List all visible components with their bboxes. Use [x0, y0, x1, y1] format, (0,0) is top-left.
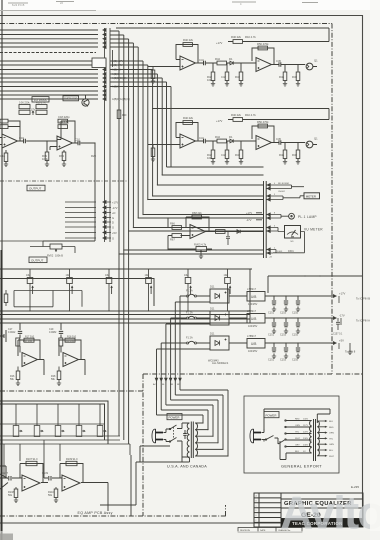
svg-text:OUTPUT: OUTPUT: [29, 187, 42, 191]
fuse F1: [187, 294, 197, 297]
left edge darkening: [0, 250, 2, 540]
wire labels: [278, 183, 289, 193]
svg-text:D1: D1: [229, 57, 233, 61]
second channel row: [148, 113, 329, 164]
svg-text:R107 91.0: R107 91.0: [26, 458, 38, 461]
svg-text:C10: C10: [75, 138, 80, 142]
meter pair loop: [273, 185, 304, 189]
svg-text:C42: C42: [221, 75, 226, 79]
svg-text:8-22 P.C.B: 8-22 P.C.B: [12, 3, 25, 7]
resistor R49: [296, 72, 300, 81]
op-amp IC1a: [180, 56, 196, 70]
svg-text:R66: R66: [170, 222, 175, 226]
slider RV11: [13, 426, 22, 437]
wire op1 out to op2: [18, 140, 58, 142]
svg-text:BLK: BLK: [295, 451, 300, 453]
wire f3: [171, 318, 210, 372]
pot leg: [168, 249, 212, 256]
band bus right return: [249, 269, 251, 323]
feedback loop B: [252, 48, 274, 65]
switch S1: [166, 423, 190, 457]
pot RV03: [196, 247, 207, 254]
svg-text:R43: R43: [235, 75, 240, 79]
resistor R17 box: [16, 338, 20, 346]
svg-text:117V: 117V: [303, 425, 308, 427]
T1 secondary taps to loop: [157, 381, 229, 456]
wire bus group1: [0, 30, 98, 47]
wire input: [148, 60, 180, 67]
output jack Q1: [306, 63, 317, 70]
svg-text:240V: 240V: [303, 445, 309, 447]
svg-text:CH002: CH002: [278, 191, 286, 193]
vu rail stub arrows: [256, 213, 262, 220]
transformer feed loop wires: [157, 296, 211, 372]
op-amp left2: [57, 136, 73, 150]
ground input leg: [152, 67, 154, 82]
op-amp VU IC3: [190, 225, 206, 239]
labels: [183, 35, 318, 82]
PCB dash-dot border top: [0, 23, 332, 25]
right margin shading: [370, 0, 380, 540]
wire: [110, 43, 264, 228]
resistor R40: [183, 43, 193, 47]
line cap C1: [183, 430, 187, 439]
svg-text:C45: C45: [276, 59, 281, 63]
slider RV14: [76, 426, 85, 437]
+17V arrow: [32, 111, 34, 115]
svg-text:POWER: POWER: [266, 413, 277, 417]
POWER label box export: [264, 412, 279, 418]
grounds: [45, 164, 49, 167]
ground RV03: [199, 256, 203, 259]
T1 secondary winding: [195, 423, 197, 456]
vu pair loop: [273, 228, 305, 253]
svg-text:220V: 220V: [303, 432, 309, 434]
OUTPUT label box 1: [27, 185, 45, 191]
svg-text:C157 0.1: C157 0.1: [333, 334, 343, 336]
wire op2 plus: [50, 147, 57, 151]
svg-text:0.0082: 0.0082: [49, 331, 57, 334]
OUTPUT label box 2: [29, 257, 47, 263]
resistor R43: [239, 72, 243, 81]
lower rails: [0, 424, 130, 455]
svg-text:R68 22k: R68 22k: [192, 211, 202, 215]
svg-text:C155: C155: [292, 312, 299, 315]
bottom margin shading: [0, 531, 380, 540]
grounded legs: [6, 141, 64, 164]
resistor R68: [192, 215, 202, 219]
cropped op-amp left edge: [0, 466, 8, 489]
svg-text:RV02: RV02: [47, 255, 54, 258]
svg-text:D301: D301: [288, 250, 294, 253]
resistor R69 on vu out: [216, 230, 226, 234]
main dividers: [281, 499, 363, 519]
lower slider top leads: [16, 404, 100, 426]
svg-text:RED: RED: [329, 427, 334, 429]
svg-text:100k-B: 100k-B: [55, 255, 63, 258]
row1 return rail: [152, 109, 329, 120]
svg-text:+17V: +17V: [216, 41, 223, 45]
op-amp IC1b: [256, 58, 272, 72]
svg-text:METER: METER: [306, 195, 316, 199]
svg-text:ORN: ORN: [295, 425, 300, 427]
svg-text:100/25V: 100/25V: [248, 303, 258, 306]
top margin micro text: [12, 1, 242, 7]
bus rails: [0, 311, 250, 323]
resistor R67: [172, 234, 182, 238]
svg-text:R60: R60: [122, 114, 127, 117]
svg-text:To IC PIN A: To IC PIN A: [356, 319, 370, 323]
connector pin labels: [112, 59, 130, 101]
labels row: [186, 286, 299, 315]
svg-text:VU METER: VU METER: [304, 228, 323, 232]
svg-text:10k: 10k: [207, 78, 212, 82]
wire f6: [157, 349, 211, 372]
svg-text:G: G: [112, 236, 114, 240]
capacitor C157: [336, 318, 340, 330]
resistor R46: [233, 40, 243, 44]
svg-text:R48: R48: [279, 75, 284, 79]
svg-text:C41: C41: [199, 58, 204, 62]
resistor R66: [172, 226, 182, 230]
nested bus verticals to lower rows: [110, 28, 329, 444]
wire band1: [19, 323, 21, 353]
svg-text:-17V: -17V: [246, 218, 252, 222]
resistor R16 leg: [17, 367, 19, 384]
labels lower opamps: [2, 458, 78, 497]
svg-text:G: G: [112, 225, 114, 229]
svg-text:D: D: [112, 220, 114, 224]
svg-text:R49: R49: [292, 75, 297, 79]
wire to meter label: [273, 196, 304, 200]
wire f1: [180, 296, 183, 372]
capacitor C16: [4, 153, 8, 162]
LO PASS label box: [32, 97, 49, 102]
AC plug USA: [152, 429, 163, 443]
svg-text:-17V: -17V: [339, 314, 345, 318]
svg-text:RV03 4.7k: RV03 4.7k: [194, 242, 207, 246]
scan specks top edge: [8, 2, 318, 4]
slider RV12: [34, 426, 43, 437]
op-amp out A: [22, 475, 40, 491]
svg-text:+17V: +17V: [339, 292, 346, 296]
ground row3 end: [349, 343, 351, 352]
lower connector pins: [65, 202, 111, 238]
svg-text:OVERLOAD: OVERLOAD: [64, 98, 78, 101]
resistor R19 box: [59, 338, 63, 346]
svg-text:ORN: ORN: [329, 433, 334, 435]
svg-text:RED: RED: [295, 419, 300, 421]
svg-text:WHT: WHT: [329, 456, 335, 458]
diode D5 on vu out: [237, 230, 240, 234]
scan blob bottom left: [0, 534, 13, 540]
connector J1/P1 strip: [105, 28, 113, 242]
lamp PL-1: [289, 213, 295, 219]
svg-text:GRN: GRN: [329, 444, 334, 446]
board edge pins: [155, 372, 181, 381]
resistor R48: [283, 72, 287, 81]
svg-text:R67: R67: [170, 238, 175, 242]
lower PCB dash-dot right: [142, 374, 144, 516]
resistor C18/R18 boxes: [58, 119, 68, 128]
wire: [110, 87, 171, 168]
sliders band1: [27, 269, 231, 311]
band box frame: [0, 279, 250, 324]
VU METER box: [285, 226, 301, 239]
wire f2: [175, 302, 210, 372]
capacitor bank row1: [272, 301, 300, 305]
svg-text:R10 4.7k: R10 4.7k: [245, 35, 256, 39]
transformer T1 export core: [314, 419, 316, 461]
svg-text:BLU: BLU: [329, 450, 334, 452]
svg-text:D303: D303: [277, 251, 283, 253]
svg-text:R40 22k: R40 22k: [183, 38, 194, 42]
capacitor in A: [9, 476, 11, 481]
svg-text:R46 22k: R46 22k: [231, 35, 242, 39]
op-amp band2: [63, 353, 79, 367]
feedback vu: [186, 217, 209, 232]
POWER label box USA: [167, 414, 182, 420]
wire: [110, 78, 264, 175]
svg-text:POWER: POWER: [169, 415, 180, 419]
wire: [110, 31, 264, 436]
slider RV5: [185, 269, 191, 311]
wire row: [183, 295, 336, 309]
svg-text:R20: R20: [91, 154, 96, 158]
bridge rectifier D11: [210, 289, 229, 303]
company band: [281, 519, 363, 528]
+B distribution rail: [268, 276, 362, 293]
svg-text:100V: 100V: [303, 419, 309, 421]
diode D1: [230, 61, 233, 65]
resistor R93: [62, 152, 66, 161]
resistor R60 on bus: [117, 110, 121, 119]
capacitor C41: [204, 61, 206, 65]
wire vu inputs: [168, 218, 190, 249]
right bracket line: [339, 296, 341, 349]
svg-text:R109 91.0: R109 91.0: [66, 458, 78, 461]
svg-text:-17V: -17V: [112, 206, 118, 210]
+17V rail feed: [228, 41, 329, 43]
wire output chain: [196, 62, 257, 64]
svg-text:U/B: U/B: [251, 295, 256, 299]
svg-text:GRY: GRY: [295, 445, 300, 447]
capacitor C10: [78, 141, 80, 145]
svg-text:OUTPUT: OUTPUT: [31, 258, 44, 262]
svg-text:+5V: +5V: [112, 231, 117, 235]
feedback loop op2: [57, 121, 75, 143]
svg-text:R36 2.7k: R36 2.7k: [36, 102, 46, 105]
svg-text:C19: C19: [19, 136, 24, 140]
svg-text:R44: R44: [215, 57, 220, 61]
svg-text:C151: C151: [268, 312, 275, 315]
PCB dash-dot border bottom: [143, 373, 362, 375]
wire band2: [60, 323, 62, 353]
T1 primary winding: [187, 423, 189, 458]
labels left column: [0, 108, 96, 162]
chassis wires to bottom: [100, 446, 190, 516]
AC plug export: [250, 429, 261, 443]
export secondary taps: [317, 421, 326, 456]
svg-text:+17V: +17V: [246, 211, 252, 215]
svg-text:R18 2.7k: R18 2.7k: [58, 121, 69, 125]
lamp loop: [273, 215, 289, 219]
resistor R108: [15, 487, 17, 500]
svg-text:+5V: +5V: [339, 339, 344, 343]
svg-text:C153: C153: [280, 312, 287, 315]
OVERLOAD label box: [63, 96, 79, 101]
wire stage B in: [44, 477, 62, 479]
svg-text:+D: +D: [112, 211, 116, 215]
svg-text:C109: C109: [42, 472, 49, 475]
wire op1 inputs: [0, 138, 2, 145]
svg-text:F1 2A: F1 2A: [186, 290, 193, 293]
wire: [110, 39, 264, 444]
transistor Q5: [82, 95, 89, 107]
svg-text:0.56 220k: 0.56 220k: [19, 102, 30, 105]
capacitor C45: [279, 62, 281, 66]
selector tap labels: [295, 419, 309, 454]
plug cords export: [262, 429, 265, 442]
stage B feedback: [60, 461, 108, 511]
feedback loop op1: [8, 121, 20, 141]
capacitor C42 leg: [225, 72, 229, 81]
wire bus group2: [0, 61, 98, 99]
top rail wire: [116, 28, 329, 42]
capacitor C18 box: [0, 119, 8, 128]
relay box K1: [92, 58, 106, 68]
svg-text:C18 220p: C18 220p: [58, 115, 70, 119]
feedback loop A: [176, 45, 198, 64]
wire: [110, 74, 264, 185]
svg-text:D11: D11: [210, 286, 215, 289]
svg-text:EQ AMP PCB Assy: EQ AMP PCB Assy: [78, 511, 113, 515]
capacitor in B: [49, 476, 51, 481]
op-amp band1: [22, 353, 38, 367]
grounds: [211, 84, 215, 87]
feedback band1: [18, 338, 44, 375]
resistor R19: [45, 152, 49, 161]
resistor R18 leg: [58, 367, 60, 384]
slider RV6: [225, 269, 231, 311]
output wire B: [272, 64, 306, 66]
capacitor C19b: [59, 331, 63, 333]
slider RV15: [97, 426, 106, 437]
svg-text:AC: AC: [153, 383, 156, 386]
pin numbers: [274, 183, 276, 250]
METER label box: [304, 193, 320, 199]
svg-text:U.S.A. AND CANADA: U.S.A. AND CANADA: [167, 465, 207, 469]
svg-text:Q1: Q1: [314, 59, 318, 63]
shield dash wire: [0, 52, 96, 54]
power row2: [183, 308, 336, 337]
export primary winding: [310, 421, 312, 453]
revision cell ticks: [256, 495, 258, 523]
lower bus loop: [0, 401, 108, 444]
verticals from rails to stages: [4, 440, 60, 478]
plug cords: [164, 429, 167, 442]
svg-text:BLK: BLK: [329, 421, 334, 423]
svg-text:100k: 100k: [42, 157, 48, 161]
svg-text:ALL MODELS: ALL MODELS: [212, 361, 228, 365]
slider RV13: [55, 426, 64, 437]
slider RV2: [67, 269, 73, 311]
PCB dash-dot border right: [331, 24, 333, 375]
svg-text:+17V: +17V: [112, 200, 118, 204]
svg-text:To IC PIN B: To IC PIN B: [356, 297, 370, 301]
export secondary winding: [317, 421, 319, 456]
wire f5: [161, 343, 210, 372]
op-amp left1: [2, 134, 18, 148]
slider RV1: [27, 269, 33, 311]
capacitor C17: [18, 331, 22, 333]
capacitor C19: [24, 139, 26, 143]
grounds row1: [272, 309, 276, 312]
svg-text:PL.1 LAMP: PL.1 LAMP: [298, 215, 317, 219]
cropped resistor left edge mid: [4, 290, 8, 306]
wire: [110, 35, 264, 440]
shield dashed line: [0, 180, 128, 182]
lower PCB dash-dot bottom: [0, 505, 226, 516]
wire stub: [0, 241, 43, 247]
slider RV3: [106, 269, 112, 311]
revision legend row: [238, 528, 302, 533]
op-amp out B: [62, 475, 80, 491]
supply output labels: [339, 292, 370, 354]
resistor R50: [258, 46, 268, 50]
wire: [110, 70, 264, 197]
svg-text:G: G: [112, 216, 114, 220]
svg-text:230V: 230V: [303, 438, 309, 440]
resistor R110: [55, 487, 57, 500]
svg-text:GENERAL EXPORT: GENERAL EXPORT: [281, 464, 322, 469]
scan left edge: [1, 0, 3, 540]
pot RV02: [30, 244, 75, 253]
inner wiring loop: [14, 291, 82, 307]
svg-text:A(B)D(G)(B)(G): A(B)D(G)(B)(G): [112, 97, 130, 101]
power row3: [183, 333, 336, 362]
feedback band2: [59, 338, 85, 375]
filter trim boxes: [19, 105, 47, 115]
wire: [110, 47, 264, 218]
wire vu out: [206, 231, 264, 233]
switch export selector: [262, 409, 331, 460]
resistor R44: [217, 61, 227, 65]
svg-text:To PIN 8: To PIN 8: [345, 350, 356, 354]
wire f4: [166, 324, 210, 372]
regulator U/B: [247, 292, 265, 302]
wire: [110, 61, 264, 215]
filter chain band1: [20, 323, 61, 353]
cropped cap left edge: [0, 330, 6, 342]
bus wire above band box: [0, 268, 252, 270]
wire: [110, 65, 264, 200]
svg-text:R93: R93: [59, 154, 64, 158]
slider RV4: [146, 269, 152, 311]
svg-text:WHT: WHT: [295, 438, 301, 440]
grounded legs: [213, 63, 298, 84]
lower PCB dash-dot top: [0, 390, 143, 392]
revision column: [254, 493, 281, 527]
svg-text:R50 470k: R50 470k: [257, 42, 269, 46]
wire stage A in: [0, 477, 22, 479]
svg-text:0.0022: 0.0022: [8, 331, 16, 334]
svg-text:C16: C16: [0, 154, 5, 158]
labels vu: [170, 211, 252, 247]
svg-text:L78M17: L78M17: [247, 288, 257, 291]
transformer T1 core: [191, 422, 193, 459]
svg-text:Avito: Avito: [280, 487, 380, 539]
